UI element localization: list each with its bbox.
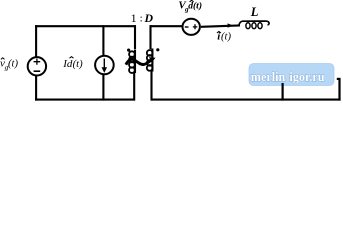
voltage source v_g circle bbox=[28, 57, 46, 75]
wire bottom secondary bbox=[151, 99, 341, 101]
arrow inside Id pointing down bbox=[102, 59, 108, 73]
inductor L coil bbox=[239, 21, 269, 26]
wire Id vertical top bbox=[102, 25, 104, 56]
wire left vertical top bbox=[35, 25, 37, 57]
label Vg d(t) bbox=[178, 0, 202, 13]
svg-text:(t): (t) bbox=[73, 59, 83, 70]
load branch right vertical bbox=[338, 78, 340, 101]
svg-text::: : bbox=[140, 13, 143, 25]
svg-text:Id: Id bbox=[62, 58, 73, 70]
svg-text:D: D bbox=[144, 11, 154, 25]
transformer secondary winding bbox=[147, 49, 153, 72]
label v_g(t) bbox=[0, 58, 18, 72]
transformer primary top lead bbox=[134, 25, 136, 49]
transformer primary bottom lead bbox=[133, 73, 135, 101]
minus sign inside (left) bbox=[185, 26, 189, 28]
current source Id circle bbox=[95, 56, 114, 75]
plus sign inside v_g bbox=[34, 59, 41, 65]
current arrow i(t) bbox=[228, 23, 233, 27]
wire left vertical bottom bbox=[35, 75, 37, 100]
wire bottom primary bbox=[35, 99, 135, 101]
label 1 : D bbox=[131, 11, 154, 25]
load branch top tick bbox=[337, 78, 341, 80]
wire Id vertical bottom bbox=[102, 74, 104, 100]
label i(t) bbox=[217, 30, 232, 42]
svg-text:(t): (t) bbox=[221, 31, 231, 42]
voltage source Vg d(t) circle bbox=[183, 19, 200, 35]
svg-text:1: 1 bbox=[131, 11, 137, 25]
plus sign inside (right) bbox=[193, 24, 198, 29]
minus sign inside v_g bbox=[34, 70, 41, 72]
transformer dot left bbox=[127, 49, 130, 52]
transformer dot right bbox=[156, 48, 159, 51]
wire secondary top bbox=[150, 25, 183, 27]
wire after source to inductor bbox=[201, 25, 240, 26]
transformer secondary bottom lead bbox=[150, 71, 152, 101]
transformer crossing wavy arrow bbox=[126, 57, 156, 65]
label Id(t) bbox=[62, 57, 83, 70]
svg-text:(t): (t) bbox=[8, 59, 18, 70]
transformer primary winding bbox=[129, 50, 135, 74]
capacitor branch line under watermark bbox=[282, 83, 284, 101]
wire top primary bbox=[35, 25, 136, 27]
transformer secondary top lead bbox=[149, 25, 151, 49]
svg-text:L: L bbox=[250, 5, 259, 19]
svg-text:d(t): d(t) bbox=[188, 1, 202, 12]
watermark box merlin-igor.ru bbox=[249, 64, 334, 86]
svg-text:merlin-igor.ru: merlin-igor.ru bbox=[251, 70, 325, 84]
